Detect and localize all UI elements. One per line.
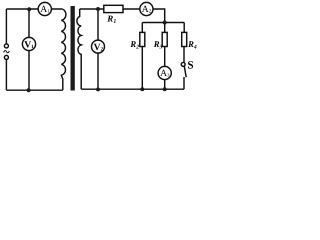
wire: A3 bottom lead (164, 80, 166, 90)
wire: left circuit bottom rail (6, 89, 62, 91)
junction node: V1 bottom (27, 88, 31, 92)
voltmeter V1 (22, 37, 35, 50)
ammeter A2 (140, 2, 153, 15)
switch S terminal circle (181, 62, 185, 66)
voltmeter V2 (92, 40, 105, 53)
wire: A2 to right corner and down to node (153, 9, 165, 23)
wire: left circuit top rail (6, 8, 62, 10)
junction node: R2 bottom (140, 87, 144, 91)
junction node: A3 bottom (163, 87, 167, 91)
resistor R1 box (104, 5, 123, 12)
transformer secondary winding (77, 9, 81, 89)
transformer core bar (71, 6, 75, 91)
junction node: parallel bank top (163, 21, 167, 25)
wire: voltmeter V1 branch lower (28, 51, 30, 91)
resistor R3 box (162, 32, 167, 46)
wire: drop to R3 top (164, 23, 166, 33)
wire: drop to R2 top (141, 23, 143, 33)
svg-text:S: S (187, 60, 193, 72)
junction node: V1 top (27, 7, 31, 11)
resistor R2 box (140, 32, 145, 46)
transformer primary winding (61, 9, 66, 90)
AC tilde symbol (4, 51, 10, 53)
junction node: V2 bottom (96, 87, 100, 91)
wire: R4 bottom to switch (183, 47, 185, 63)
switch S blade (184, 66, 186, 77)
ammeter A1 (38, 2, 51, 15)
wire: distribution bar for parallel resistors (142, 22, 184, 24)
junction node: V2 top (96, 7, 100, 11)
wire: V2 branch upper (97, 9, 99, 40)
wire: R2 bottom lead (141, 47, 143, 90)
wire: switch to bottom rail (183, 77, 185, 89)
wire: left circuit left side lower (5, 60, 7, 91)
wire: V2 branch lower (97, 53, 99, 89)
resistor R4 box (182, 32, 187, 46)
wire: right circuit bottom rail (81, 88, 184, 90)
wire: drop to R4 top (183, 23, 185, 33)
wire: secondary top rail (80, 8, 104, 10)
wire: R3 bottom to A3 (164, 47, 166, 67)
terminal: AC input upper (4, 44, 8, 48)
wire: left circuit left side upper (5, 9, 7, 44)
wire: voltmeter V1 branch upper (28, 9, 30, 37)
terminal: AC input lower (4, 55, 8, 59)
wire: R1 to A2 (123, 8, 140, 10)
background (0, 0, 201, 95)
ammeter A3 (158, 66, 171, 79)
